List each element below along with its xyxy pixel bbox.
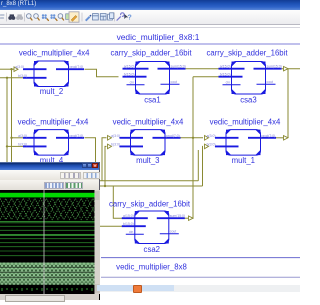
wire mult_1 prod to V4 — [275, 137, 284, 139]
toolbar — [0, 10, 300, 24]
pin prod(7:0) — [56, 68, 84, 70]
pin sum(15:0) — [157, 217, 185, 219]
svg-text:b(15:0): b(15:0) — [123, 222, 134, 226]
corner marks — [34, 61, 69, 87]
pin prod(7:0) — [56, 137, 84, 139]
vedic_multiplier_4x4 mult_2 — [15, 48, 90, 96]
svg-text:a(15:0): a(15:0) — [124, 65, 135, 69]
waveform simulation window — [0, 162, 100, 301]
svg-text:carry_skip_adder_16bit: carry_skip_adder_16bit — [206, 48, 288, 57]
block outline mult_3 — [131, 130, 166, 156]
pin prod(7:0) — [153, 137, 181, 139]
svg-text:prod(7:0): prod(7:0) — [70, 65, 84, 69]
svg-text:cin: cin — [129, 230, 133, 234]
zoom in — [27, 14, 32, 19]
signal wave zigzag 1 — [0, 199, 99, 210]
svg-text:cout: cout — [171, 80, 177, 84]
input arrow mult_1 b — [205, 144, 209, 149]
sheet bottom boundary line 2 — [101, 276, 300, 278]
svg-text:b(3:0): b(3:0) — [207, 142, 216, 146]
pin b(15:0) — [123, 76, 147, 78]
wire H1 — [100, 180, 198, 182]
svg-text:a(3:0): a(3:0) — [111, 134, 120, 138]
pin cin — [126, 233, 144, 235]
help pointer — [124, 14, 128, 19]
wrench — [117, 13, 124, 20]
vedic_multiplier_4x4 mult_3 — [111, 117, 184, 165]
corner marks — [226, 130, 261, 156]
svg-text:csa1: csa1 — [144, 95, 160, 104]
pin a(3:0) — [215, 137, 239, 139]
wire net b(7:0) top — [0, 77, 23, 79]
pin a(3:0) — [23, 68, 47, 70]
svg-text:cin: cin — [226, 81, 230, 85]
cursor line — [43, 190, 45, 294]
junction dot net b x7 — [6, 77, 8, 79]
wire vertical V3 x193 — [192, 77, 194, 219]
pin b(15:0) — [219, 76, 243, 78]
junction dot V3 mult_3 prod — [192, 137, 194, 139]
input arrow mult_3 b — [108, 144, 112, 149]
block outline mult_1 — [226, 130, 261, 156]
zoom selection blue — [42, 14, 47, 19]
pin a(15:0) — [123, 68, 149, 70]
svg-text:prod(7:0): prod(7:0) — [166, 134, 180, 138]
svg-text:a(3:0): a(3:0) — [207, 134, 216, 138]
block outline csa1 — [136, 62, 170, 95]
schematic horizontal scrollbar — [100, 285, 300, 292]
right scrollbar — [95, 190, 101, 294]
pin a(15:0) — [219, 68, 245, 70]
copy pages icon — [108, 13, 114, 20]
corner marks — [131, 130, 166, 156]
wire vertical V9 mult_3 b feed — [105, 146, 107, 186]
wire vertical V2 mult_3 a feed — [102, 138, 107, 181]
wire mult_3 prod to mult_1 a — [181, 137, 204, 139]
pin cin — [223, 84, 241, 86]
bottom scrollbar of wave window — [0, 294, 99, 300]
svg-text:a(3:0): a(3:0) — [15, 65, 24, 69]
svg-text:vedic_multiplier_4x4: vedic_multiplier_4x4 — [113, 117, 184, 126]
sheet top boundary line — [0, 43, 300, 45]
svg-text:cout: cout — [170, 230, 176, 234]
zoom fit — [66, 14, 71, 20]
pin cin — [127, 84, 145, 86]
wire csa2 sum out — [185, 217, 190, 219]
pin prod(7:0) — [248, 137, 276, 139]
flat signal lines — [0, 222, 95, 256]
corner marks — [34, 130, 69, 156]
junction dot mult_4 a — [10, 137, 12, 139]
pin sum(15:0) — [158, 68, 186, 70]
input arrow mult_2 a — [14, 67, 18, 72]
pin sum(15:0) — [254, 68, 282, 70]
wire csa3 sum out — [281, 68, 300, 70]
pressed toggle button — [69, 12, 79, 22]
junction dot net a x11.5 — [10, 68, 12, 70]
corner marks — [136, 62, 170, 95]
svg-text:cin: cin — [130, 81, 134, 85]
junction dot mult_4 b — [6, 145, 8, 147]
svg-text:?: ? — [128, 15, 132, 22]
svg-text:b(3:0): b(3:0) — [18, 74, 27, 78]
block outline csa2 — [135, 211, 169, 244]
wire H2 — [100, 185, 203, 187]
junction arrow mult_1 prod — [284, 136, 289, 140]
doc icon 1 — [93, 14, 99, 20]
wire vertical V4 x288 — [287, 69, 289, 138]
svg-text:a(3:0): a(3:0) — [18, 134, 27, 138]
pin cout — [257, 83, 276, 85]
zoom plain — [58, 14, 63, 19]
sheet bottom boundary line 1 — [101, 257, 300, 259]
svg-text:carry_skip_adder_16bit: carry_skip_adder_16bit — [110, 48, 192, 57]
binoculars grey — [16, 14, 23, 20]
svg-text:prod(7:0): prod(7:0) — [70, 134, 84, 138]
input arrow mult_1 a — [205, 136, 209, 141]
doc icon 2 — [100, 14, 106, 20]
svg-text:vedic_multiplier_8x8: vedic_multiplier_8x8 — [116, 262, 187, 271]
pin b(3:0) — [215, 145, 239, 147]
svg-text:carry_skip_adder_16bit: carry_skip_adder_16bit — [109, 199, 191, 208]
junction arrow csa2 sum — [189, 216, 194, 220]
wire vertical a drop x11.5 — [11, 69, 13, 163]
pin a(3:0) — [23, 137, 47, 139]
carry_skip_adder_16bit csa1 — [110, 48, 192, 104]
wire net a(7:0) top — [0, 68, 14, 70]
svg-text:csa3: csa3 — [240, 95, 256, 104]
wave toolbar row 1 — [0, 170, 99, 181]
marker pencil — [85, 16, 90, 21]
svg-text:sum(15:0): sum(15:0) — [267, 65, 282, 69]
pin cout — [161, 83, 180, 85]
svg-text:a(15:0): a(15:0) — [123, 214, 134, 218]
binoculars dark — [8, 14, 15, 20]
wire mult_4 prod drop — [85, 138, 96, 163]
block outline mult_4 — [34, 130, 69, 156]
carry_skip_adder_16bit csa3 — [206, 48, 288, 104]
application title bar — [0, 0, 300, 10]
zoom page blue — [50, 14, 55, 19]
svg-text:sum(15:0): sum(15:0) — [171, 65, 186, 69]
wire csa1 sum to csa3 a — [185, 68, 219, 70]
signal wave zigzag 2 — [0, 210, 99, 220]
pin cout — [160, 233, 179, 235]
wave window title bar — [0, 162, 99, 171]
svg-text:sum(15:0): sum(15:0) — [170, 214, 185, 218]
wire vertical V5 mult_1 b feed — [202, 146, 205, 186]
wire mult_4 b feed — [7, 145, 23, 147]
partial left icon — [1, 15, 5, 18]
svg-text:cout: cout — [267, 80, 273, 84]
block outline mult_2 — [34, 61, 69, 87]
wire mult_4 a feed — [12, 137, 24, 139]
svg-text:b(3:0): b(3:0) — [18, 142, 27, 146]
svg-text:b(15:0): b(15:0) — [124, 73, 135, 77]
wire mult_2 prod to csa1 b — [85, 69, 119, 77]
svg-text:vedic_multiplier_4x4: vedic_multiplier_4x4 — [19, 48, 90, 57]
pin b(15:0) — [122, 225, 146, 227]
svg-text:csa2: csa2 — [144, 245, 160, 254]
svg-text:prod(7:0): prod(7:0) — [262, 134, 276, 138]
pin b(3:0) — [23, 145, 47, 147]
corner marks — [135, 211, 169, 244]
block outline csa3 — [232, 62, 266, 95]
pin a(15:0) — [122, 217, 148, 219]
corner marks — [232, 62, 266, 95]
svg-text:b(3:0): b(3:0) — [111, 142, 120, 146]
input arrow mult_3 a — [108, 136, 112, 141]
junction arrow csa3 sum — [284, 67, 289, 71]
pin b(3:0) — [120, 145, 144, 147]
junction dot H2 V9 — [104, 185, 106, 187]
vedic_multiplier_4x4 mult_4 — [18, 117, 89, 165]
svg-text:mult_3: mult_3 — [136, 156, 159, 165]
pin a(3:0) — [120, 137, 144, 139]
carry_skip_adder_16bit csa2 — [109, 199, 191, 254]
svg-text:vedic_multiplier_4x4: vedic_multiplier_4x4 — [210, 117, 281, 126]
svg-text:mult_1: mult_1 — [232, 156, 255, 165]
wire V3 to csa3 b — [193, 76, 219, 78]
orange scroll marker — [133, 285, 142, 294]
svg-text:b(15:0): b(15:0) — [220, 73, 231, 77]
signal clk solid bar — [0, 193, 95, 198]
wire H3 csa2 b feed — [100, 225, 122, 227]
svg-text:vedic_multiplier_8x8:1: vedic_multiplier_8x8:1 — [117, 32, 200, 42]
svg-text:a(15:0): a(15:0) — [220, 65, 231, 69]
time axis ticks — [2, 288, 92, 291]
wire vertical b drop x7 — [6, 78, 8, 163]
zoom out — [34, 14, 39, 19]
wave toolbar row 2 — [0, 180, 99, 190]
svg-text:mult_2: mult_2 — [40, 87, 63, 96]
wire vertical V7 — [197, 150, 199, 181]
wire V8 csa2 a feed — [113, 186, 122, 218]
svg-text:vedic_multiplier_4x4: vedic_multiplier_4x4 — [18, 117, 89, 126]
vedic_multiplier_4x4 mult_1 — [207, 117, 281, 165]
pin b(3:0) — [23, 77, 47, 79]
waveform plot area — [0, 190, 100, 300]
